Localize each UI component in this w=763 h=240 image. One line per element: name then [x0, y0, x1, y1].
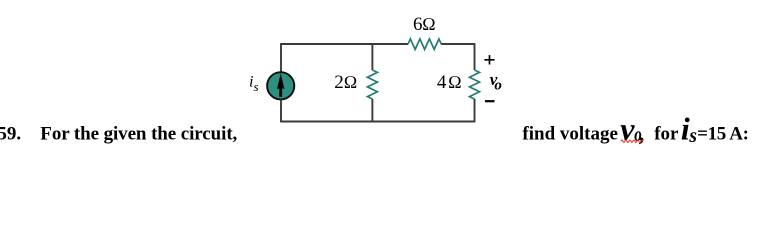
question text right: =15 A:	[697, 123, 749, 144]
spellcheck red squiggle under v_o	[621, 140, 643, 142]
wire left branch bottom (current source to bottom-left corner)	[280, 100, 282, 123]
svg-text:for: for	[654, 123, 679, 144]
svg-text:o: o	[494, 77, 502, 93]
question text right: comma and for	[639, 121, 679, 146]
question text right: large italic i	[681, 110, 690, 146]
svg-text:2: 2	[334, 72, 344, 93]
question text right part 1: find voltage	[522, 123, 618, 144]
question number 59. (clipped at left edge)	[0, 123, 21, 144]
label i_s (source current)	[249, 73, 259, 94]
label - (polarity minus below v_o)	[485, 100, 495, 102]
question text left: For the given the circuit,	[40, 123, 237, 144]
resistor R 6 ohm (horizontal zigzag)	[408, 39, 441, 50]
wire middle branch bottom (2-ohm to bottom wire)	[371, 99, 373, 122]
svg-text:find voltage: find voltage	[522, 123, 618, 144]
svg-text:s: s	[254, 79, 259, 94]
label 2 ohm	[334, 72, 357, 93]
wire right branch bottom (4-ohm to bottom-right corner)	[474, 99, 476, 122]
wire middle branch top (junction to 2-ohm resistor)	[371, 44, 373, 70]
wire bottom (bottom-right corner to bottom-left corner)	[281, 121, 475, 123]
svg-text:=15 A:: =15 A:	[697, 123, 749, 144]
question text right: subscript s	[688, 126, 697, 147]
svg-text:Ω: Ω	[422, 14, 436, 34]
circuit schematic	[0, 0, 763, 154]
label v_o (output voltage)	[490, 70, 502, 93]
label 4 ohm	[437, 72, 462, 93]
svg-text:For the given the circuit,: For the given the circuit,	[40, 123, 237, 144]
current source Is (teal circle with upward black arrow)	[267, 72, 294, 99]
label + (polarity plus above v_o)	[484, 55, 494, 64]
resistor R 2 ohm (vertical zigzag)	[367, 70, 377, 99]
wire 6-ohm resistor to top-right corner	[441, 43, 474, 45]
label 6 ohm	[413, 14, 436, 35]
svg-text:4: 4	[437, 72, 447, 93]
wire right branch top (corner down to 4-ohm resistor)	[474, 43, 476, 70]
wire left branch top (top-left corner to current source)	[280, 43, 282, 72]
wire top-left to junction (top wire left segment)	[281, 43, 372, 45]
svg-text:s: s	[688, 126, 697, 147]
resistor R 4 ohm (vertical zigzag)	[470, 70, 480, 99]
question text right: large italic v	[620, 110, 635, 146]
svg-text:Ω: Ω	[344, 72, 358, 92]
svg-text:Ω: Ω	[448, 72, 462, 92]
svg-text:59.: 59.	[0, 123, 21, 144]
question text right: subscript o	[634, 124, 642, 146]
wire junction to 6-ohm resistor (top wire middle segment)	[372, 43, 408, 45]
